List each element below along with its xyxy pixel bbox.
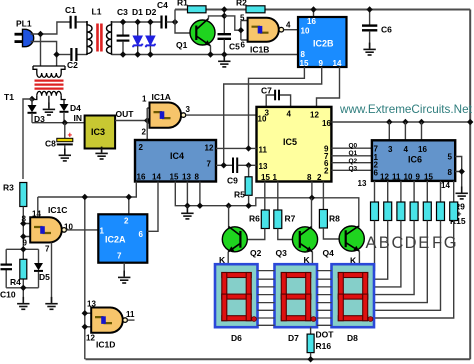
svg-text:2: 2	[124, 217, 129, 226]
svg-text:IC6: IC6	[408, 155, 422, 165]
wire IC5 pin16 +V supply row	[331, 121, 470, 123]
segment link wires between displays	[258, 271, 332, 326]
display D7	[275, 264, 318, 327]
wire C1 to L1 top	[77, 21, 87, 23]
svg-text:9: 9	[319, 59, 324, 68]
wire IC2A pin6 to IC4 pin14	[147, 182, 158, 232]
wire IC6 top pins 3 4 16	[389, 122, 421, 140]
svg-text:16: 16	[322, 119, 331, 128]
svg-text:7: 7	[207, 160, 212, 169]
svg-text:4: 4	[404, 145, 409, 154]
svg-text:Q1: Q1	[349, 150, 358, 157]
resistor R8	[319, 210, 345, 240]
svg-text:C8: C8	[45, 139, 56, 149]
transistor Q4	[323, 226, 365, 266]
wire IC6 pins 5+8 to ground	[455, 157, 462, 187]
svg-text:R16: R16	[316, 341, 332, 351]
wire IC2B pin9 to IC4 pin7 node	[224, 67, 322, 165]
wire L1 top to C4	[112, 21, 162, 23]
svg-text:OUT: OUT	[116, 109, 135, 119]
svg-text:C: C	[391, 234, 403, 252]
svg-text:L1: L1	[92, 7, 102, 17]
resistor R16 with DOT label	[307, 327, 334, 359]
svg-text:D1: D1	[132, 7, 143, 17]
svg-text:IC1B: IC1B	[250, 45, 269, 55]
wire IC5 pin15 to R6	[264, 182, 266, 211]
svg-text:6: 6	[374, 169, 379, 178]
svg-text:8: 8	[448, 168, 453, 177]
ground below C8	[59, 149, 71, 161]
svg-text:C1: C1	[65, 5, 76, 15]
capacitor C6	[362, 10, 392, 49]
wire collector bus from IC4 pin15	[175, 182, 358, 228]
capacitor C4	[157, 0, 175, 29]
segment bus wires down to D8 nest	[374, 221, 454, 319]
display D8	[332, 264, 375, 327]
svg-text:16: 16	[137, 173, 146, 182]
svg-text:11: 11	[126, 310, 135, 319]
svg-text:16: 16	[418, 145, 427, 154]
resistors R9 R10 R11 R12 R13 R14 R15	[371, 202, 458, 221]
svg-text:G: G	[444, 234, 457, 252]
svg-text:R7: R7	[285, 214, 296, 224]
resistor R3	[3, 183, 27, 207]
wire IC2A pin7 to ground	[123, 263, 125, 277]
svg-text:Q3: Q3	[276, 248, 288, 258]
svg-text:IC3: IC3	[91, 127, 105, 137]
capacitor C2	[67, 48, 78, 70]
svg-text:E: E	[418, 234, 429, 252]
svg-text:F: F	[432, 234, 442, 252]
transformer L1	[87, 7, 112, 56]
svg-text:C7: C7	[261, 86, 272, 96]
wire top +V rail	[175, 9, 188, 11]
svg-text:14: 14	[152, 173, 161, 182]
ground below IC1C pin7	[45, 297, 57, 309]
wire C2 to L1 bottom	[77, 54, 87, 56]
wire R3 down to C10 box	[22, 207, 24, 250]
svg-text:IC1A: IC1A	[152, 92, 171, 102]
ground below R4	[17, 297, 29, 309]
wire IC1B input feed	[224, 16, 241, 30]
wire IC1A out to IC5 pin10	[186, 114, 257, 116]
svg-text:8: 8	[195, 173, 200, 182]
ground below C6	[363, 43, 375, 55]
ground below C5 rail	[218, 55, 230, 67]
svg-text:7: 7	[45, 245, 50, 254]
svg-text:8: 8	[307, 173, 312, 182]
svg-text:12: 12	[86, 334, 95, 343]
diode D3	[28, 99, 46, 124]
capacitor C9	[227, 158, 257, 186]
svg-text:2: 2	[139, 143, 144, 152]
resistor R5	[234, 165, 252, 205]
wire C2 node to C2	[57, 54, 71, 56]
svg-text:15: 15	[261, 173, 270, 182]
IC IC5	[257, 107, 332, 182]
svg-text:15: 15	[300, 59, 309, 68]
IC IC6	[372, 140, 455, 181]
svg-text:Q2: Q2	[349, 158, 358, 165]
svg-text:12: 12	[380, 173, 389, 182]
svg-text:6: 6	[241, 41, 246, 50]
wire IC5 pin1 to R7	[277, 182, 279, 211]
svg-text:5: 5	[448, 153, 453, 162]
svg-text:C10: C10	[0, 290, 16, 300]
wire IC2B pin15 to IC5 pin11 node	[249, 67, 305, 148]
wire junction PL1 down to T1 primary left	[40, 34, 42, 66]
ground T1 center tap	[43, 103, 55, 115]
svg-text:R1: R1	[177, 0, 188, 8]
wire C2 node to T1 primary right	[56, 55, 58, 66]
wire D3/D4 to IC3 IN	[32, 122, 85, 124]
wire IC5 pin2 to R8	[322, 182, 324, 210]
gate IC1B	[238, 14, 298, 55]
node junction PL1 top	[37, 31, 43, 37]
wire collector node vertical	[223, 10, 225, 34]
svg-text:T1: T1	[4, 92, 14, 102]
svg-text:R5: R5	[234, 190, 245, 200]
ground below IC3	[95, 147, 107, 159]
svg-text:D5: D5	[39, 272, 50, 282]
wire collector node rail R1 to R2	[206, 9, 246, 11]
svg-text:12: 12	[205, 144, 214, 153]
svg-text:C3: C3	[117, 7, 128, 17]
svg-text:IC4: IC4	[170, 151, 184, 161]
wire T1 left lead to node	[31, 100, 33, 106]
wire plug bottom prong to C2 node	[31, 42, 57, 55]
capacitor C10 / resistor R4 / diode D5 network	[0, 249, 50, 303]
svg-text:DOT: DOT	[316, 330, 335, 340]
wire IC4 pin7 to C9	[216, 164, 232, 166]
svg-text:IC5: IC5	[283, 137, 297, 147]
wire node to R3	[23, 99, 32, 179]
wire IC5 pin8 down to bus	[311, 182, 313, 198]
IC IC4	[135, 140, 216, 182]
svg-text:13: 13	[182, 173, 191, 182]
svg-text:IC1C: IC1C	[48, 205, 67, 215]
wire +V rail R2 to right border	[265, 9, 470, 11]
svg-text:PL1: PL1	[16, 19, 32, 29]
wire bus IC1C pin14 / IC1D / IC2A pin2 / IC4 pin16	[38, 182, 137, 360]
capacitor C7	[261, 86, 291, 107]
svg-text:3: 3	[388, 145, 393, 154]
svg-text:C6: C6	[381, 25, 392, 35]
wire IC2B pin14 to IC5 pin12	[317, 67, 340, 107]
svg-text:12: 12	[310, 111, 319, 120]
node C4/R1/base	[172, 19, 178, 25]
capacitor C3	[117, 7, 130, 55]
svg-text:11: 11	[392, 173, 401, 182]
svg-text:C5: C5	[229, 42, 240, 52]
svg-text:C4: C4	[157, 0, 168, 10]
transistor Q2	[219, 206, 262, 265]
svg-text:4: 4	[286, 21, 291, 30]
svg-text:1: 1	[142, 95, 147, 104]
svg-text:10: 10	[301, 27, 310, 36]
svg-text:1: 1	[273, 173, 278, 182]
svg-text:D4: D4	[70, 103, 81, 113]
svg-text:R8: R8	[329, 214, 340, 224]
svg-text:15: 15	[424, 173, 433, 182]
diode D2 zener	[146, 7, 157, 55]
svg-text:7: 7	[117, 252, 122, 261]
wire Q1 collector	[209, 16, 225, 19]
IC IC2B	[298, 10, 347, 69]
svg-text:14: 14	[333, 59, 342, 68]
wire plug top prong to C1	[31, 22, 70, 34]
diode D4	[60, 100, 82, 123]
gate IC1A	[142, 92, 191, 140]
svg-text:11: 11	[259, 146, 268, 155]
capacitor C5	[218, 34, 241, 54]
svg-text:4: 4	[287, 110, 292, 119]
wire node up to R1	[174, 10, 176, 23]
transistor Q1	[175, 16, 224, 55]
svg-text:IN: IN	[74, 113, 83, 123]
svg-text:IC1D: IC1D	[96, 340, 115, 350]
wires Q0-Q3 IC5 to IC6	[331, 148, 372, 170]
svg-text:Q3: Q3	[349, 166, 358, 173]
svg-text:D8: D8	[347, 333, 358, 343]
svg-text:C9: C9	[227, 176, 238, 186]
resistor R1	[177, 0, 206, 13]
svg-text:10: 10	[258, 115, 267, 124]
svg-text:IC2A: IC2A	[105, 235, 126, 245]
svg-text:6: 6	[139, 230, 144, 239]
wire L1 bottom rail to IC2B pin8	[112, 54, 299, 56]
svg-text:R3: R3	[3, 183, 14, 193]
wire bottom rail	[86, 358, 471, 360]
svg-text:15: 15	[170, 173, 179, 182]
resistor R7	[274, 210, 300, 240]
svg-text:5: 5	[240, 14, 245, 23]
wire IC4 pin12 to IC5 pin11	[216, 147, 257, 149]
svg-text:D7: D7	[288, 333, 299, 343]
transformer T1	[4, 66, 66, 105]
svg-text:IC2B: IC2B	[313, 39, 334, 49]
segment letters A B C D E F G	[365, 234, 456, 252]
svg-text:9: 9	[416, 173, 421, 182]
capacitor C8 electrolytic	[45, 123, 73, 155]
svg-text:B: B	[379, 234, 390, 252]
transistor Q3	[276, 198, 318, 265]
gate IC1C	[22, 197, 99, 303]
wire Q1 emitter to rail	[210, 46, 212, 55]
svg-text:Q4: Q4	[323, 248, 335, 258]
svg-text:D2: D2	[146, 7, 157, 17]
svg-text:D6: D6	[231, 333, 242, 343]
svg-text:9: 9	[23, 239, 28, 248]
svg-text:2: 2	[317, 173, 322, 182]
svg-text:13: 13	[358, 179, 367, 188]
svg-text:10: 10	[404, 173, 413, 182]
svg-text:www.ExtremeCircuits.Net: www.ExtremeCircuits.Net	[339, 103, 473, 116]
svg-text:Q2: Q2	[250, 248, 262, 258]
resistor R6	[241, 210, 270, 240]
plug PL1	[15, 19, 34, 47]
svg-text:3: 3	[186, 105, 191, 114]
svg-text:2: 2	[324, 167, 329, 176]
svg-text:R6: R6	[249, 214, 260, 224]
capacitor C1	[65, 5, 76, 29]
resistor R2	[236, 0, 265, 13]
wire right border	[469, 10, 471, 360]
svg-text:1: 1	[100, 227, 105, 236]
IC IC2A	[98, 214, 147, 262]
svg-text:C2: C2	[67, 60, 78, 70]
svg-text:D: D	[405, 234, 417, 252]
svg-text:A: A	[365, 234, 376, 252]
svg-text:8: 8	[301, 50, 306, 59]
regulator IC3	[85, 116, 116, 153]
diode D1 zener	[132, 7, 143, 55]
gate IC1D	[85, 300, 135, 350]
node labels Q0 Q1 Q2 Q3	[349, 142, 358, 172]
svg-text:Q0: Q0	[349, 142, 358, 149]
ground on collector bus	[181, 207, 193, 219]
svg-text:2: 2	[142, 128, 147, 137]
svg-text:Q1: Q1	[176, 40, 188, 50]
segment resistors R9-R15 wires from IC6	[375, 181, 454, 202]
display D6	[215, 264, 258, 327]
svg-text:13: 13	[259, 162, 268, 171]
svg-text:16: 16	[307, 17, 316, 26]
node junction C2/T1	[53, 51, 59, 57]
svg-text:14: 14	[441, 181, 450, 190]
node T1/D3/R3	[29, 96, 35, 102]
